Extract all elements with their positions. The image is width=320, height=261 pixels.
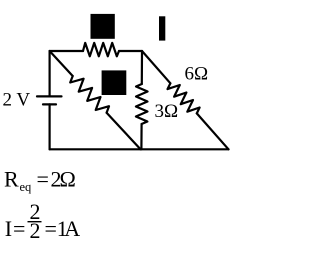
resistor R1 (top, shorted) — [83, 43, 119, 56]
resistor R2 (diagonal, shorted) — [70, 76, 109, 113]
svg-text:A: A — [64, 216, 80, 241]
wire: top side, R1 to node B — [119, 50, 142, 52]
short-circuit block over R1 (black square) — [91, 14, 115, 39]
resistor 6ohm (diagonal) — [168, 83, 200, 113]
fraction bar — [28, 221, 42, 223]
svg-text:2 V: 2 V — [3, 90, 31, 111]
resistor 3ohm (vertical) — [136, 84, 148, 124]
battery V1 short plate — [43, 103, 56, 105]
svg-text:Ω: Ω — [60, 166, 76, 191]
svg-text:=: = — [13, 216, 25, 241]
wire: diagonal from node B to resistor 6ohm — [142, 51, 170, 83]
svg-text:=: = — [45, 216, 57, 241]
wire: bottom rail — [50, 148, 229, 150]
svg-text:R: R — [4, 166, 19, 191]
wire: node B down to resistor 3ohm — [141, 51, 143, 84]
wire: 3ohm to bottom node — [140, 124, 142, 149]
wire: left side lower, battery to bottom-left corner — [48, 104, 50, 149]
svg-text:eq: eq — [20, 180, 33, 194]
svg-text:6Ω: 6Ω — [185, 64, 209, 85]
short-circuit block over R2 (black square) — [102, 70, 127, 95]
svg-text:I: I — [5, 216, 12, 241]
svg-text:2: 2 — [30, 218, 41, 243]
wire: diagonal R2 to bottom node — [107, 113, 141, 150]
current marker I (thick bar) — [159, 16, 165, 40]
svg-text:=: = — [37, 166, 49, 191]
svg-text:3Ω: 3Ω — [155, 101, 179, 122]
wire: diagonal from node A to resistor R2 — [50, 51, 73, 76]
battery V1 long plate — [37, 95, 62, 97]
wire: left side upper, node A to battery — [48, 51, 50, 96]
wire: top side, node A to resistor R1 — [50, 50, 83, 52]
wire: 6ohm to bottom-right corner — [197, 113, 229, 149]
